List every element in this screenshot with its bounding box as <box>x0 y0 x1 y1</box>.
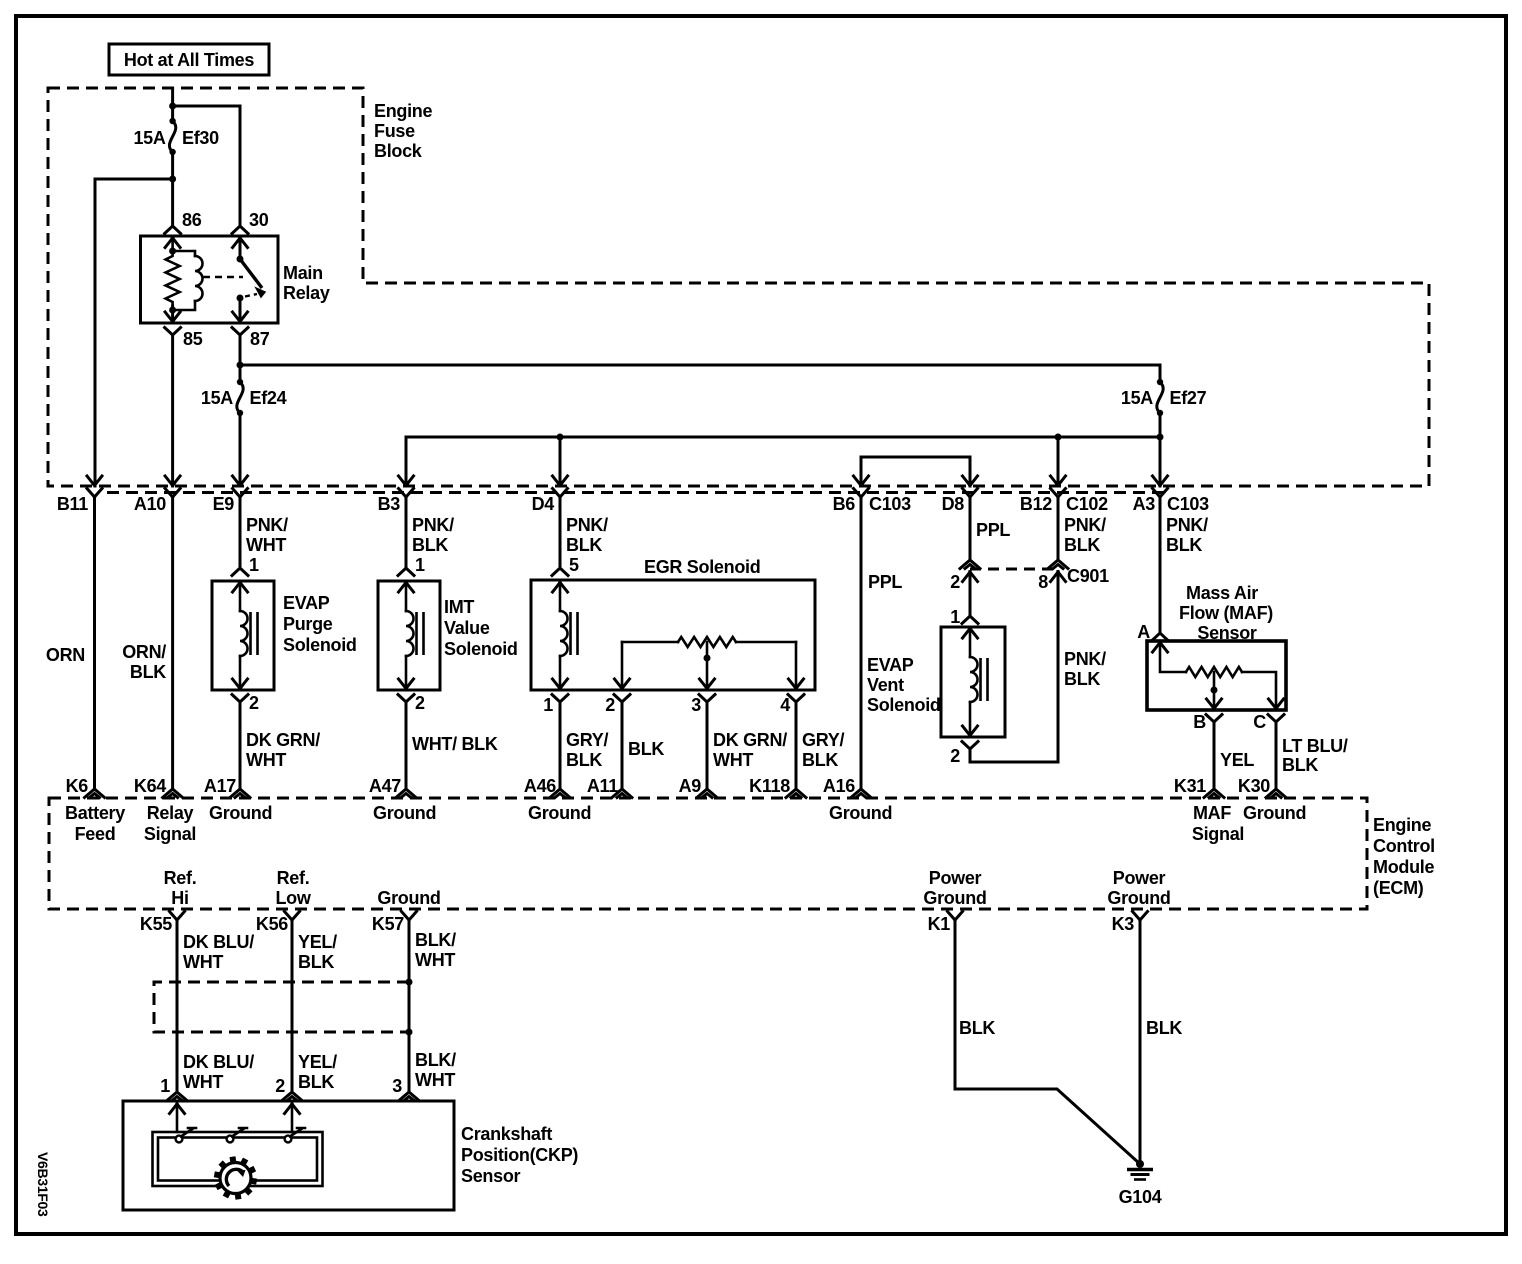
connector K56 at ECM bottom <box>285 912 300 921</box>
wire Ef24 to E9 <box>239 413 242 486</box>
svg-text:K118: K118 <box>749 776 790 796</box>
junction relay coil top <box>169 248 176 255</box>
wire BLK K1 to G104 <box>955 920 1140 1164</box>
svg-text:Ground: Ground <box>829 803 892 823</box>
wire Ef27 to A3 <box>1159 413 1162 486</box>
pin 2 EVAP vent <box>963 726 978 736</box>
svg-text:EVAP: EVAP <box>867 655 914 675</box>
connector K31 at ECM <box>1204 789 1224 798</box>
svg-text:5: 5 <box>569 555 579 575</box>
connector B11 at fuse block <box>87 476 102 486</box>
svg-text:Signal: Signal <box>144 824 196 844</box>
svg-text:G104: G104 <box>1119 1187 1162 1207</box>
svg-text:E9: E9 <box>213 494 235 514</box>
connector A9 at ECM <box>697 789 717 798</box>
svg-text:ORN/: ORN/ <box>122 642 166 662</box>
wire LT BLU/BLK MAF-C to K30 <box>1275 722 1278 790</box>
junction EGR wiper <box>704 655 711 662</box>
svg-text:Control: Control <box>1373 836 1435 856</box>
pin 3 EGR connector <box>700 679 715 689</box>
svg-text:A3: A3 <box>1133 494 1156 514</box>
connector A46 at ECM <box>550 789 570 798</box>
svg-text:IMT: IMT <box>444 597 474 617</box>
svg-text:Hi: Hi <box>171 888 188 908</box>
connector K118 at ECM <box>786 789 806 798</box>
pin 2 IMT <box>399 679 414 689</box>
connector A16 at ECM <box>851 789 871 798</box>
svg-text:PNK/: PNK/ <box>246 515 288 535</box>
svg-text:WHT: WHT <box>183 952 223 972</box>
pin 30 connector <box>232 226 248 234</box>
connector row dashed line <box>107 491 1165 494</box>
svg-text:3: 3 <box>392 1076 402 1096</box>
CKP pickup element 1 <box>176 1136 183 1143</box>
junction shield top <box>406 979 413 986</box>
svg-text:BLK: BLK <box>1064 669 1100 689</box>
wire PPL D8 to C901-2 <box>969 497 972 561</box>
EVAP vent coil <box>969 628 972 657</box>
svg-text:BLK: BLK <box>1146 1018 1182 1038</box>
svg-text:Flow (MAF): Flow (MAF) <box>1179 603 1273 623</box>
svg-text:LT BLU/: LT BLU/ <box>1282 736 1348 756</box>
connector C901 pin 2 <box>960 560 980 569</box>
wire PPL B6 to A16 <box>860 497 863 790</box>
svg-text:PNK/: PNK/ <box>1166 515 1208 535</box>
svg-text:WHT: WHT <box>246 750 286 770</box>
svg-text:15A: 15A <box>133 128 165 148</box>
wire GRY/BLK EGR4 to K118 <box>795 702 798 790</box>
svg-text:WHT: WHT <box>183 1072 223 1092</box>
svg-text:Ground: Ground <box>209 803 272 823</box>
svg-text:WHT: WHT <box>246 535 286 555</box>
wire PNK/BLK D4 to EGR solenoid <box>559 497 562 568</box>
svg-text:Solenoid: Solenoid <box>283 635 357 655</box>
svg-text:Feed: Feed <box>75 824 116 844</box>
svg-text:8: 8 <box>1038 572 1048 592</box>
svg-text:Sensor: Sensor <box>461 1166 521 1186</box>
wire EVAP vent return <box>970 572 1058 763</box>
wire PNK/BLK B12 to C901-8 <box>1057 497 1060 561</box>
svg-text:DK BLU/: DK BLU/ <box>183 1052 254 1072</box>
junction shield bottom <box>406 1029 413 1036</box>
junction relay coil bottom <box>169 307 176 314</box>
solenoid EGR box <box>531 580 815 690</box>
svg-text:BLK: BLK <box>802 750 838 770</box>
svg-text:WHT: WHT <box>415 1070 455 1090</box>
junction B11 branch <box>169 176 176 183</box>
svg-text:BLK: BLK <box>412 535 448 555</box>
svg-text:WHT: WHT <box>415 950 455 970</box>
svg-text:K31: K31 <box>1174 776 1206 796</box>
pin 86 connector <box>165 226 181 234</box>
svg-text:A11: A11 <box>587 776 618 796</box>
pin 87 connector <box>233 312 248 322</box>
wire DK BLU/WHT K55 to CKP 1 <box>176 920 179 1093</box>
svg-text:PNK/: PNK/ <box>412 515 454 535</box>
wire GRY/BLK EGR1 to A46 <box>559 702 562 790</box>
svg-text:WHT/ BLK: WHT/ BLK <box>412 734 498 754</box>
wire DK GRN/WHT EGR3 to A9 <box>706 702 709 790</box>
svg-text:Signal: Signal <box>1192 824 1244 844</box>
svg-text:Value: Value <box>444 618 490 638</box>
svg-text:B: B <box>1193 712 1206 732</box>
relay coil winding <box>173 251 195 256</box>
sensor MAF box <box>1147 641 1286 710</box>
relay switch common pivot <box>237 256 244 263</box>
svg-text:K55: K55 <box>140 914 172 934</box>
junction MAF wiper <box>1211 687 1218 694</box>
EGR wiper tap pin 3 <box>706 642 709 689</box>
wire YEL MAF-B to K31 <box>1213 722 1216 790</box>
svg-text:Engine: Engine <box>1373 815 1431 835</box>
svg-text:2: 2 <box>605 695 615 715</box>
pin 85 connector <box>165 312 180 322</box>
relay coil resistor <box>166 238 180 313</box>
svg-text:A17: A17 <box>204 776 236 796</box>
wire branch to relay pin 30 <box>173 106 240 226</box>
relay actuation dashed link <box>203 276 243 278</box>
pin C MAF connector <box>1269 699 1284 709</box>
svg-text:WHT: WHT <box>713 750 753 770</box>
wire WHT/BLK to A47 <box>405 702 408 790</box>
svg-text:YEL/: YEL/ <box>298 1052 337 1072</box>
wire ORN B11 to K6 <box>93 497 96 790</box>
svg-text:Solenoid: Solenoid <box>867 695 941 715</box>
junction bus B12 <box>1055 434 1062 441</box>
svg-text:BLK: BLK <box>566 750 602 770</box>
svg-text:Ef27: Ef27 <box>1170 388 1207 408</box>
svg-text:86: 86 <box>182 210 202 230</box>
svg-text:B11: B11 <box>57 494 88 514</box>
svg-text:C103: C103 <box>1167 494 1209 514</box>
svg-text:Engine: Engine <box>374 101 432 121</box>
fuse Ef27 15A <box>1157 379 1163 385</box>
svg-text:Purge: Purge <box>283 614 333 634</box>
svg-text:Ground: Ground <box>1107 888 1170 908</box>
solenoid EVAP Purge box <box>212 581 274 690</box>
engine fuse block dashed boundary <box>48 88 1429 486</box>
svg-text:BLK: BLK <box>298 1072 334 1092</box>
svg-text:A16: A16 <box>823 776 855 796</box>
connector K1 at ECM bottom <box>948 912 963 921</box>
svg-text:K57: K57 <box>372 914 404 934</box>
wire branch to B11 <box>95 179 173 486</box>
svg-text:Module: Module <box>1373 857 1434 877</box>
svg-text:K6: K6 <box>66 776 89 796</box>
EVAP purge coil <box>239 582 242 611</box>
svg-text:Crankshaft: Crankshaft <box>461 1124 552 1144</box>
svg-text:EGR Solenoid: EGR Solenoid <box>644 557 760 577</box>
svg-text:Main: Main <box>283 263 323 283</box>
svg-text:B6: B6 <box>833 494 856 514</box>
svg-text:Ground: Ground <box>528 803 591 823</box>
svg-text:BLK: BLK <box>298 952 334 972</box>
pin 2 EVAP purge <box>233 679 248 689</box>
svg-text:2: 2 <box>950 572 960 592</box>
wire BLK K3 to G104 <box>1139 920 1142 1164</box>
svg-text:Ground: Ground <box>923 888 986 908</box>
svg-text:1: 1 <box>543 695 553 715</box>
svg-text:K1: K1 <box>928 914 951 934</box>
svg-text:K30: K30 <box>1238 776 1270 796</box>
pin 4 EGR connector <box>789 679 804 689</box>
module Engine Control Module dashed box <box>49 798 1367 909</box>
svg-text:Ground: Ground <box>373 803 436 823</box>
svg-text:30: 30 <box>249 210 269 230</box>
svg-text:2: 2 <box>950 746 960 766</box>
CKP pickup element 3 <box>285 1136 292 1143</box>
svg-text:BLK/: BLK/ <box>415 1050 456 1070</box>
CKP pin 2 internal arrow <box>285 1104 300 1114</box>
svg-text:DK BLU/: DK BLU/ <box>183 932 254 952</box>
connector A10 at fuse block <box>165 476 180 486</box>
svg-text:EVAP: EVAP <box>283 593 330 613</box>
svg-text:BLK: BLK <box>628 739 664 759</box>
shield dashed box <box>154 982 409 1032</box>
svg-text:(ECM): (ECM) <box>1373 878 1424 898</box>
wire pin 85 to A10 <box>171 335 174 486</box>
wire PNK/BLK A3 to MAF pin A <box>1159 497 1162 633</box>
wire YEL/BLK K56 to CKP 2 <box>291 920 294 1093</box>
wire hot feed from fuse block top <box>171 88 174 121</box>
junction at G104 <box>1136 1160 1144 1168</box>
svg-text:Mass Air: Mass Air <box>1186 583 1258 603</box>
svg-text:Position(CKP): Position(CKP) <box>461 1145 578 1165</box>
wire PNK/WHT E9 to EVAP purge solenoid <box>239 497 242 568</box>
svg-text:Ef24: Ef24 <box>250 388 287 408</box>
wire Ef30 to relay pin 86 <box>171 152 174 226</box>
svg-text:Relay: Relay <box>147 803 194 823</box>
svg-text:A10: A10 <box>134 494 166 514</box>
svg-text:3: 3 <box>691 695 701 715</box>
svg-text:Ground: Ground <box>1243 803 1306 823</box>
svg-text:Low: Low <box>275 888 311 908</box>
wire BLK EGR2 to A11 <box>621 702 624 790</box>
svg-text:1: 1 <box>950 607 960 627</box>
svg-text:PPL: PPL <box>868 572 902 592</box>
wire bus drop to B3 <box>405 437 408 486</box>
svg-text:BLK: BLK <box>130 662 166 682</box>
svg-text:D8: D8 <box>942 494 965 514</box>
svg-text:GRY/: GRY/ <box>566 730 608 750</box>
MAF internal wiring <box>1160 642 1186 672</box>
svg-text:Battery: Battery <box>65 803 125 823</box>
svg-text:C901: C901 <box>1067 566 1109 586</box>
MAF wiper to pin B <box>1213 672 1216 709</box>
svg-text:15A: 15A <box>201 388 233 408</box>
svg-text:V6B31F03: V6B31F03 <box>35 1152 51 1217</box>
connector K6 at ECM <box>85 789 105 798</box>
EGR resistor right leg pin 4 <box>795 642 798 689</box>
svg-text:Ground: Ground <box>377 888 440 908</box>
connector B6 at fuse block <box>854 476 869 486</box>
pin 2 EGR connector <box>615 679 630 689</box>
svg-text:K56: K56 <box>256 914 288 934</box>
connector D4 at fuse block <box>553 476 568 486</box>
svg-text:1: 1 <box>415 555 425 575</box>
svg-text:BLK/: BLK/ <box>415 930 456 950</box>
label Hot at All Times <box>109 44 269 75</box>
connector A11 at ECM <box>612 789 632 798</box>
connector A47 at ECM <box>396 789 416 798</box>
svg-text:D4: D4 <box>532 494 555 514</box>
connector D8 at fuse block <box>963 476 978 486</box>
svg-text:1: 1 <box>160 1076 170 1096</box>
IMT coil <box>405 582 408 611</box>
svg-text:C102: C102 <box>1066 494 1108 514</box>
pin 1 EGR connector <box>553 679 568 689</box>
connector C901 pin 8 <box>1048 560 1068 569</box>
svg-text:Hot at All Times: Hot at All Times <box>124 50 255 70</box>
svg-text:Ref.: Ref. <box>277 868 310 888</box>
connector K57 at ECM bottom <box>402 912 417 921</box>
wire pin 87 down <box>239 335 242 382</box>
junction Ef27 distribution <box>1157 434 1164 441</box>
svg-text:ORN: ORN <box>46 645 85 665</box>
connector A3 at fuse block <box>1153 476 1168 486</box>
fuse Ef24 15A <box>237 379 243 385</box>
svg-text:BLK: BLK <box>1166 535 1202 555</box>
connector K30 at ECM <box>1266 789 1286 798</box>
svg-text:A9: A9 <box>679 776 702 796</box>
CKP pin 1 internal arrow <box>170 1104 185 1114</box>
wire BLK/WHT K57 to CKP 3 <box>408 920 411 1093</box>
svg-text:85: 85 <box>183 329 203 349</box>
connector C901 dashed line <box>970 568 1058 571</box>
svg-text:2: 2 <box>415 693 425 713</box>
svg-text:B12: B12 <box>1020 494 1052 514</box>
connector A17 at ECM <box>230 789 250 798</box>
junction 87 feed split <box>237 362 244 369</box>
relay contact 87 dot <box>237 295 244 302</box>
svg-text:Power: Power <box>1113 868 1166 888</box>
svg-text:PNK/: PNK/ <box>1064 515 1106 535</box>
relay switch arm <box>240 259 262 288</box>
wire PNK/BLK B3 to IMT solenoid <box>405 497 408 568</box>
svg-text:YEL: YEL <box>1220 750 1254 770</box>
connector K55 at ECM bottom <box>170 912 185 921</box>
svg-text:A: A <box>1137 622 1150 642</box>
svg-text:DK GRN/: DK GRN/ <box>246 730 320 750</box>
ground G104 symbol <box>1127 1168 1153 1172</box>
connector B12 at fuse block <box>1051 476 1066 486</box>
svg-text:PNK/: PNK/ <box>566 515 608 535</box>
connector K64 at ECM <box>163 789 183 798</box>
CKP reluctor inner box <box>153 1132 323 1186</box>
fuse Ef30 15A <box>169 118 175 124</box>
CKP reluctor gear <box>214 1157 256 1200</box>
svg-text:BLK: BLK <box>1064 535 1100 555</box>
svg-text:Solenoid: Solenoid <box>444 639 518 659</box>
wire ORN/BLK A10 to K64 <box>171 497 174 790</box>
svg-text:PNK/: PNK/ <box>1064 649 1106 669</box>
svg-text:MAF: MAF <box>1193 803 1231 823</box>
wire distribution bus <box>406 436 1160 439</box>
connector E9 at fuse block <box>233 476 248 486</box>
wire bus drop to B12 <box>1057 437 1060 486</box>
connector K3 at ECM bottom <box>1133 912 1148 921</box>
svg-text:YEL/: YEL/ <box>298 932 337 952</box>
svg-text:BLK: BLK <box>959 1018 995 1038</box>
svg-text:2: 2 <box>249 693 259 713</box>
svg-text:Ef30: Ef30 <box>182 128 219 148</box>
wire DK GRN/WHT to A17 <box>239 702 242 790</box>
junction bus D4 <box>557 434 564 441</box>
connector B3 at fuse block <box>399 476 414 486</box>
svg-text:C103: C103 <box>869 494 911 514</box>
svg-text:B3: B3 <box>378 494 401 514</box>
EGR resistor left leg pin 2 <box>621 642 624 689</box>
svg-text:A46: A46 <box>524 776 556 796</box>
wire bus drop to D4 <box>559 437 562 486</box>
svg-text:K64: K64 <box>134 776 166 796</box>
svg-text:Vent: Vent <box>867 675 904 695</box>
svg-text:Power: Power <box>929 868 982 888</box>
svg-text:Ref.: Ref. <box>164 868 197 888</box>
svg-text:DK GRN/: DK GRN/ <box>713 730 787 750</box>
svg-text:K3: K3 <box>1112 914 1135 934</box>
EGR position resistor <box>622 641 678 644</box>
svg-text:Fuse: Fuse <box>374 121 415 141</box>
wire bridge B6 to D8 <box>861 457 970 486</box>
svg-text:A47: A47 <box>369 776 401 796</box>
sensor Crankshaft Position CKP box <box>123 1101 454 1210</box>
svg-text:4: 4 <box>780 695 790 715</box>
svg-text:GRY/: GRY/ <box>802 730 844 750</box>
wire C901-2 to EVAP vent pin 1 <box>969 572 972 617</box>
wire 87 feed to Ef27 <box>240 365 1160 382</box>
svg-text:PPL: PPL <box>976 520 1010 540</box>
svg-text:Block: Block <box>374 141 423 161</box>
svg-text:BLK: BLK <box>566 535 602 555</box>
svg-text:C: C <box>1253 712 1266 732</box>
EGR coil <box>559 581 562 611</box>
solenoid EVAP Vent box <box>941 627 1005 737</box>
pin B MAF connector <box>1207 699 1222 709</box>
svg-text:2: 2 <box>275 1076 285 1096</box>
svg-text:BLK: BLK <box>1282 755 1318 775</box>
svg-text:15A: 15A <box>1121 388 1153 408</box>
CKP pickup element 2 <box>227 1136 234 1143</box>
junction hot feed split <box>169 103 176 110</box>
svg-text:1: 1 <box>249 555 259 575</box>
svg-text:87: 87 <box>250 329 270 349</box>
CKP rotation arrow <box>226 1169 243 1186</box>
relay Main Relay box <box>141 236 279 323</box>
svg-text:Relay: Relay <box>283 283 330 303</box>
solenoid IMT Value box <box>378 581 440 690</box>
